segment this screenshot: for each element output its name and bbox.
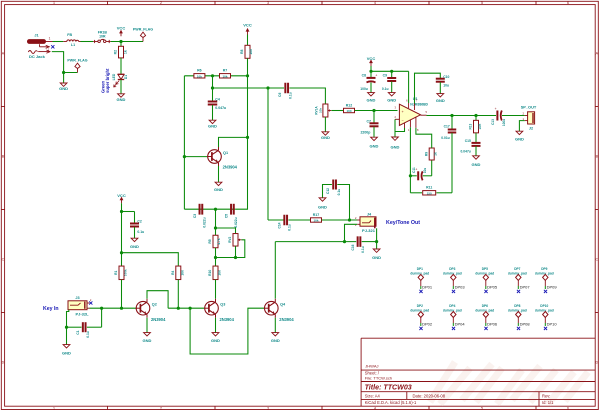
node C1 gnd junction [65, 326, 68, 329]
ground J1 [59, 83, 68, 91]
svg-text:Date: 2020-06-08: Date: 2020-06-08 [413, 394, 446, 399]
capacitor C1 [67, 308, 102, 338]
transistor Q1 [207, 147, 238, 170]
ferrite bead FB L1 [63, 33, 80, 47]
wire J2 pin1 to ground [519, 121, 524, 132]
svg-text:10k: 10k [197, 74, 202, 78]
svg-text:DP06: DP06 [487, 322, 498, 327]
svg-text:PJ-32L: PJ-32L [75, 312, 89, 317]
ground J4 [372, 249, 381, 260]
wire Q1 emitter to ground [218, 166, 220, 182]
wire left rail [183, 76, 185, 209]
dummy pad DP7 [508, 267, 527, 289]
ground zobel [472, 156, 481, 167]
capacitor C10 [436, 75, 450, 93]
svg-text:R17: R17 [313, 213, 319, 217]
wire R12 to op-amp +input [355, 110, 398, 112]
node R4 branch [120, 251, 123, 254]
ground C2 [130, 238, 139, 249]
node collector junction [246, 136, 249, 139]
resistor R10 [208, 266, 221, 280]
transistor Q4 [264, 299, 295, 322]
svg-text:DP9: DP9 [541, 267, 547, 271]
node RV2 branch [214, 226, 217, 229]
node output C17 [450, 114, 453, 117]
svg-text:GND: GND [271, 338, 280, 343]
svg-text:1: 1 [53, 1, 55, 5]
capacitor C8 [360, 71, 377, 92]
wire C16 to gnd node [362, 241, 377, 243]
svg-text:DP04: DP04 [455, 322, 466, 327]
wire J3 sleeve down [67, 310, 69, 345]
capacitor C16 [351, 236, 365, 252]
no-connect DP7 [517, 290, 520, 293]
wire J4 sleeve loop [345, 224, 358, 241]
svg-text:C1: C1 [76, 330, 80, 334]
svg-text:4: 4 [374, 1, 376, 5]
wire LED to GND [120, 80, 122, 94]
svg-text:0.1u: 0.1u [137, 230, 144, 234]
svg-text:2N3904: 2N3904 [279, 317, 294, 322]
capacitor C9 [382, 71, 396, 92]
svg-text:0.022u: 0.022u [234, 217, 238, 227]
svg-text:GND: GND [370, 144, 379, 149]
wire R6 R7 row [184, 75, 247, 77]
svg-text:0.022u: 0.022u [203, 217, 207, 227]
svg-text:L1: L1 [71, 43, 75, 47]
svg-text:DP02: DP02 [422, 322, 433, 327]
ground C10 [436, 94, 445, 103]
capacitor C2 [122, 212, 145, 239]
svg-text:Q1: Q1 [223, 151, 228, 155]
svg-text:FB: FB [67, 33, 72, 37]
svg-text:DC Jack: DC Jack [29, 54, 46, 59]
svg-text:VCC: VCC [117, 193, 126, 198]
wire Q3 collector [215, 280, 217, 299]
node C11 junction [409, 174, 412, 177]
svg-text:Id: 1/1: Id: 1/1 [542, 400, 554, 405]
svg-text:C16: C16 [351, 244, 355, 250]
svg-text:10k: 10k [318, 108, 322, 113]
svg-text:D: D [595, 361, 598, 365]
svg-text:D: D [2, 361, 5, 365]
node R1 base junction [120, 307, 123, 310]
svg-text:J1: J1 [34, 34, 38, 38]
wire VCC to R8 [247, 35, 249, 46]
dummy pad DP2 [410, 304, 429, 326]
svg-text:0.1u: 0.1u [382, 87, 389, 91]
svg-text:C: C [595, 258, 598, 262]
ground J3 [62, 345, 71, 356]
node C12 tap [348, 218, 351, 221]
svg-text:6: 6 [567, 1, 569, 5]
capacitor C17 [441, 116, 456, 193]
capacitor C12 shunt [323, 180, 350, 221]
svg-text:GND: GND [391, 144, 400, 149]
wire2 horizontal [213, 87, 285, 89]
svg-text:GND: GND [387, 98, 396, 103]
no-connect DP1 [419, 290, 422, 293]
node C2 tap [120, 210, 123, 213]
wire to Q4 collector [274, 242, 276, 299]
power symbol VCC [117, 26, 126, 37]
wire Q3 base row [168, 307, 204, 309]
svg-text:GND: GND [208, 123, 217, 128]
ground J2 [515, 131, 524, 141]
power symbol VCC amplifier [367, 56, 376, 66]
svg-text:C12: C12 [326, 188, 330, 194]
ground Q4 [271, 333, 280, 344]
svg-text:C7: C7 [367, 120, 372, 124]
ground C12 [318, 198, 327, 210]
svg-text:10k: 10k [313, 219, 318, 223]
capacitor C6 [278, 83, 292, 99]
svg-text:DP10: DP10 [540, 304, 548, 308]
svg-text:DP2: DP2 [417, 304, 423, 308]
wire pin7 bypass to C10 [415, 73, 441, 110]
svg-text:+: + [375, 74, 377, 78]
svg-text:GND: GND [130, 244, 139, 249]
wire Q4 collector [274, 297, 276, 300]
svg-text:DP07: DP07 [520, 285, 531, 290]
svg-text:Key/Tone Out: Key/Tone Out [386, 220, 420, 226]
wire R8 down to C3/C5 rail [235, 58, 247, 209]
svg-text:R13: R13 [469, 123, 473, 129]
svg-text:100: 100 [249, 49, 253, 55]
svg-text:VCC: VCC [117, 26, 126, 31]
wire tone out row [268, 219, 285, 221]
svg-text:4: 4 [374, 407, 376, 411]
no-connect DP3 [452, 290, 455, 293]
ground Q3 [211, 333, 220, 344]
wire VCC rail [370, 66, 372, 71]
svg-text:2200p: 2200p [360, 130, 370, 134]
svg-text:R12: R12 [346, 103, 352, 107]
node R6 R7 junction [211, 74, 214, 77]
node wire2 to tone branch [266, 86, 269, 89]
power symbol VCC oscillator [243, 22, 252, 34]
svg-text:SP_OUT: SP_OUT [521, 105, 537, 110]
svg-text:GND: GND [211, 338, 220, 343]
no-connect DP8 [517, 327, 520, 330]
no-connect DP6 [484, 327, 487, 330]
wire Q1 base [184, 156, 208, 158]
wire Q3 emitter [215, 318, 217, 333]
svg-text:R2: R2 [114, 50, 118, 55]
LED D1 [112, 73, 128, 87]
wire RV1A to GND [324, 117, 326, 132]
capacitor C13 output [491, 107, 506, 126]
svg-text:2: 2 [160, 407, 162, 411]
connector J3 PJ-32L key in [68, 296, 92, 317]
no-connect DP5 [484, 290, 487, 293]
node sleeve ground junction [62, 71, 65, 74]
ground below C4 [208, 120, 217, 128]
text Green super bright [100, 68, 110, 93]
svg-text:DP4: DP4 [449, 304, 455, 308]
svg-text:Q4: Q4 [280, 302, 286, 306]
svg-text:RV2: RV2 [228, 237, 232, 243]
svg-text:R5: R5 [208, 239, 212, 243]
resistor R12 [344, 103, 355, 113]
svg-text:C14: C14 [277, 222, 281, 228]
node R4 bottom [177, 307, 180, 310]
svg-text:KiCad E.D.A. kicad (5.1.6)-1: KiCad E.D.A. kicad (5.1.6)-1 [365, 400, 417, 405]
svg-text:JHWAJ: JHWAJ [365, 363, 378, 368]
svg-text:1: 1 [53, 407, 55, 411]
svg-text:0.1u: 0.1u [288, 92, 292, 99]
svg-text:VCC: VCC [367, 56, 376, 61]
svg-text:1k: 1k [433, 152, 437, 156]
svg-text:0.047u: 0.047u [461, 149, 471, 153]
svg-text:C3: C3 [193, 214, 197, 218]
svg-text:1k: 1k [123, 50, 127, 54]
svg-text:3: 3 [267, 1, 269, 5]
node C7 tap [372, 109, 375, 112]
svg-text:0.1u: 0.1u [287, 224, 291, 231]
svg-text:R1: R1 [114, 271, 118, 275]
svg-text:Q2: Q2 [152, 302, 157, 306]
dummy pad DP9 [535, 267, 554, 289]
svg-text:2N3904: 2N3904 [220, 317, 235, 322]
svg-text:super bright: super bright [105, 68, 110, 93]
wire FB to FR1B [81, 41, 94, 43]
svg-text:D1: D1 [124, 75, 128, 79]
no-connect on J1 switch pin [51, 45, 54, 48]
svg-text:3: 3 [267, 407, 269, 411]
no-connect DP2 [419, 327, 422, 330]
svg-text:GND: GND [472, 162, 481, 167]
svg-text:DP03: DP03 [455, 285, 466, 290]
svg-text:C11: C11 [412, 167, 416, 173]
node wire2 tap [211, 86, 214, 89]
svg-text:C: C [2, 258, 5, 262]
svg-text:GND: GND [372, 255, 381, 260]
no-connect DP10 [544, 327, 547, 330]
node Q1 base tap [183, 155, 186, 158]
wire R2 to LED [120, 58, 122, 74]
svg-text:GND: GND [436, 98, 445, 103]
wire key tone bottom row [275, 241, 356, 243]
dummy pad DP3 [443, 267, 462, 289]
resistor R13 zobel [469, 116, 482, 133]
resistor R11 feedback [410, 186, 452, 196]
svg-text:100u: 100u [360, 87, 368, 91]
resistor R1 [114, 266, 127, 280]
svg-text:NJM386BD: NJM386BD [410, 102, 428, 106]
wire twin-T bottom rail [184, 208, 235, 210]
svg-text:J2: J2 [529, 126, 533, 130]
svg-text:DP7: DP7 [514, 267, 520, 271]
wire Q1 collector [219, 137, 248, 147]
svg-text:GND: GND [367, 98, 376, 103]
wire R1 to base row [121, 280, 123, 309]
svg-text:C8: C8 [362, 73, 366, 77]
svg-text:C17: C17 [444, 125, 450, 129]
svg-text:C5: C5 [225, 214, 229, 218]
svg-text:10R: 10R [99, 34, 106, 38]
resistor R7 [220, 69, 231, 79]
resistor R5 [208, 235, 221, 248]
capacitor C15 zobel [461, 133, 481, 156]
ground below RV1A [321, 132, 330, 140]
connector J1 DC jack [28, 34, 53, 59]
svg-text:DP5: DP5 [482, 267, 488, 271]
ground C8 [367, 93, 376, 103]
node twin-T midpoint [214, 208, 217, 211]
svg-text:R9: R9 [424, 152, 428, 156]
svg-text:Rev:: Rev: [542, 394, 550, 399]
dummy pad DP5 [475, 267, 494, 289]
capacitor C11 [410, 167, 431, 180]
svg-text:Size: A4: Size: A4 [365, 394, 381, 399]
svg-text:4.7k: 4.7k [217, 238, 221, 244]
svg-text:GND: GND [318, 205, 327, 210]
wire J1 sleeve to ground node [52, 52, 78, 73]
node C1 branch [100, 307, 103, 310]
svg-text:C9: C9 [383, 73, 387, 77]
resistor R4 [171, 266, 184, 280]
svg-text:C6: C6 [278, 93, 282, 97]
svg-text:0.1u: 0.1u [337, 189, 341, 196]
svg-text:R10: R10 [208, 270, 212, 276]
svg-text:PWR_FLAG: PWR_FLAG [67, 59, 87, 63]
svg-text:DP10: DP10 [547, 322, 558, 327]
wire J1 pin1 to FB [53, 41, 64, 43]
svg-text:10k: 10k [217, 270, 221, 276]
wire J4 contact down [376, 228, 378, 249]
svg-text:C10: C10 [443, 75, 449, 79]
svg-text:DP3: DP3 [449, 267, 455, 271]
ground Q1 emitter [214, 182, 223, 192]
node C8 top [369, 70, 372, 73]
capacitor C14 [277, 215, 291, 231]
svg-text:GND: GND [515, 137, 524, 142]
svg-text:LED: LED [112, 73, 116, 80]
svg-text:R8: R8 [240, 50, 244, 55]
faint watermark [430, 362, 588, 404]
wire pin2 and pin4 to ground [395, 119, 405, 137]
transistor Q3 [204, 299, 235, 322]
svg-text:100k: 100k [124, 269, 128, 276]
capacitor C5 [225, 204, 239, 228]
wire J3 to Q2 base [90, 307, 137, 309]
svg-text:150: 150 [427, 191, 432, 195]
svg-text:2N3904: 2N3904 [223, 165, 238, 170]
power symbol VCC key stage [117, 193, 126, 203]
resistor R6 [194, 69, 205, 79]
svg-text:0.1u: 0.1u [361, 246, 365, 253]
node R5 R10 junction [214, 256, 217, 259]
svg-text:GND: GND [59, 86, 68, 91]
wire FR1B to VCC node [111, 41, 143, 43]
svg-text:100: 100 [346, 109, 351, 113]
transistor Q2 [136, 299, 167, 322]
svg-text:0.1u: 0.1u [86, 331, 90, 338]
dummy pad DP6 [475, 304, 494, 326]
trimmer RV2 [216, 228, 245, 259]
svg-text:10k: 10k [222, 74, 227, 78]
svg-text:0.047u: 0.047u [215, 106, 226, 110]
capacitor C3 [193, 204, 207, 228]
ground below LED [117, 94, 126, 102]
svg-text:C2: C2 [137, 220, 141, 224]
wire to R4 [122, 253, 179, 267]
capacitor C4 [208, 88, 226, 120]
svg-text:10R: 10R [478, 123, 482, 130]
node C16 right junction [343, 240, 346, 243]
wire Q2 emitter [146, 318, 148, 333]
svg-text:R6: R6 [197, 69, 202, 73]
svg-text:10u: 10u [443, 84, 449, 88]
dummy pad DP8 [508, 304, 527, 326]
dummy pad DP4 [443, 304, 462, 326]
node Q4 branch [189, 307, 192, 310]
svg-text:GND: GND [321, 135, 330, 140]
svg-text:R7: R7 [223, 69, 228, 73]
node R8 wire1 junction [246, 74, 249, 77]
wire C13 to J2 [502, 115, 525, 117]
wire R17 to J4 [322, 219, 358, 221]
svg-text:1: 1 [49, 36, 51, 40]
wire U loop to Q4 base [190, 308, 264, 354]
svg-text:C13: C13 [491, 119, 495, 125]
svg-text:Key In: Key In [43, 306, 59, 312]
svg-text:6: 6 [567, 407, 569, 411]
power flag PWR_FLAG top [133, 28, 153, 42]
svg-text:Title: TTCW03: Title: TTCW03 [365, 384, 412, 392]
no-connect DP9 [544, 290, 547, 293]
svg-text:+: + [495, 107, 497, 111]
connector J2 SP_OUT [521, 105, 537, 131]
svg-text:PWR_FLAG: PWR_FLAG [133, 28, 153, 32]
svg-text:100u: 100u [502, 119, 506, 126]
svg-text:PJ-321: PJ-321 [362, 228, 376, 233]
svg-text:2: 2 [160, 1, 162, 5]
power flag PWR_FLAG lower [67, 59, 87, 73]
svg-text:DP8: DP8 [514, 304, 520, 308]
svg-text:5: 5 [481, 1, 483, 5]
connector J4 PJ-321 [355, 213, 376, 233]
dummy pad DP1 [410, 267, 429, 289]
node VCC junction [119, 40, 122, 43]
svg-text:GND: GND [214, 187, 223, 192]
no-connect J3 pin2 [89, 301, 92, 304]
ground Q2 [143, 333, 152, 344]
wire VCC column to R1 [121, 203, 123, 266]
resistor R17 [311, 213, 322, 223]
potentiometer RV1A [314, 104, 331, 117]
capacitor C7 [360, 111, 378, 138]
node C9 top [390, 70, 393, 73]
ground C9 [387, 93, 396, 103]
title block [361, 338, 595, 406]
wire to GND [63, 73, 65, 84]
resistor R2 [114, 42, 128, 58]
svg-text:R11: R11 [426, 186, 432, 190]
svg-text:DP08: DP08 [520, 322, 531, 327]
wire wiper to R12 [332, 110, 344, 112]
svg-text:10k: 10k [180, 270, 184, 276]
wire C14 to R17 [288, 219, 310, 221]
svg-text:GND: GND [117, 97, 126, 102]
resistor R8 [240, 45, 253, 58]
dummy pad DP10 [535, 304, 554, 326]
svg-text:J3: J3 [75, 296, 79, 300]
svg-text:Q3: Q3 [220, 302, 225, 306]
ground below C7 [370, 137, 379, 148]
resistor R9 [424, 148, 437, 176]
